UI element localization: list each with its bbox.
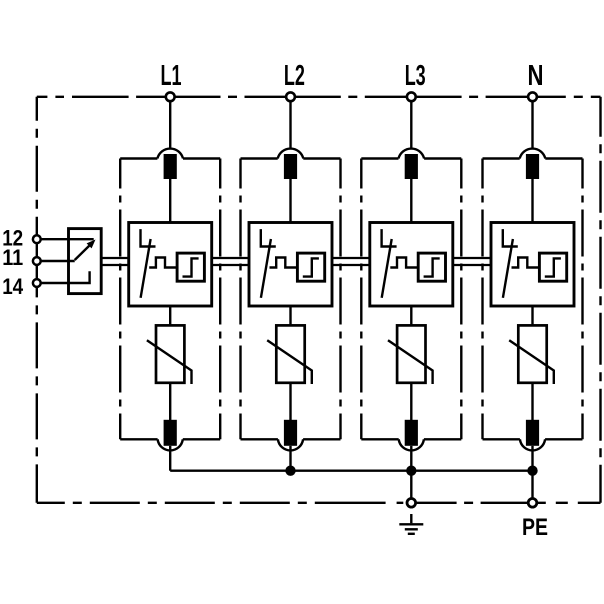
wire L2 terminal to top plug contact <box>289 101 291 149</box>
trip pulse waveform module 3 <box>390 258 418 268</box>
varistor MOV1 diagonal <box>147 340 192 384</box>
module 3 enclosure bottom edge <box>361 438 461 440</box>
terminal 11 circle <box>33 257 41 265</box>
wire disconnector box to varistor module 3 <box>410 306 412 325</box>
plug-in contact arc (top) module 3 <box>399 149 425 159</box>
wire L1 terminal to top plug contact <box>169 101 171 149</box>
module 2 enclosure left edge (dash-dot) <box>239 159 241 440</box>
wire bottom contact to PE bus module 1 <box>169 446 171 471</box>
terminal L3 circle <box>407 92 416 101</box>
wire disconnector box to varistor module 2 <box>289 306 291 325</box>
trip pulse waveform module 2 <box>270 258 298 268</box>
wire PE bus to earth terminal <box>410 471 412 499</box>
varistor MOV3 body <box>397 325 425 382</box>
step symbol module 4 <box>545 258 561 276</box>
junction dot at x=411.3 on PE bus <box>406 466 416 476</box>
wire varistor to bottom contact module 2 <box>289 383 291 420</box>
wire top contact to disconnector box module 2 <box>289 179 291 223</box>
svg-text:L1: L1 <box>161 60 182 92</box>
svg-text:L3: L3 <box>405 60 426 92</box>
terminal N circle <box>528 92 537 101</box>
module 3 enclosure top edge <box>361 157 461 159</box>
mechanical linkage double line segment 4 <box>453 258 491 265</box>
disconnector fixed contact stub module 1 <box>141 229 156 246</box>
module 3 enclosure left edge (dash-dot) <box>360 159 362 440</box>
varistor MOV3 diagonal <box>388 340 433 384</box>
wire varistor to bottom contact module 1 <box>169 383 171 420</box>
module 2 enclosure bottom edge <box>241 438 341 440</box>
plug-in contact arc (bottom) module 1 <box>158 439 183 450</box>
surge monitor box module 4 <box>539 253 566 281</box>
step symbol module 1 <box>183 258 199 276</box>
surge monitor box module 2 <box>297 253 324 281</box>
varistor MOV2 diagonal <box>267 340 312 384</box>
wire disconnector box to varistor module 4 <box>531 306 533 325</box>
wire varistor to bottom contact module 4 <box>531 383 533 420</box>
thermal disconnector + monitoring box module 3 <box>370 223 453 307</box>
svg-text:PE: PE <box>522 514 548 541</box>
wire top contact to disconnector box module 4 <box>531 179 533 223</box>
mechanical linkage double line segment 3 <box>332 258 370 265</box>
step symbol module 2 <box>303 258 319 276</box>
enclosure border left edge lower (terminal 14 to corner) <box>36 287 38 502</box>
remote signalling changeover contact box <box>69 229 102 294</box>
module 1 enclosure bottom edge <box>120 438 220 440</box>
thermal disconnector + monitoring box module 1 <box>129 223 212 307</box>
enclosure border top edge segment: L1 to L2 <box>176 96 286 98</box>
varistor MOV4 diagonal <box>509 340 554 384</box>
mechanical linkage double line segment 2 <box>212 258 249 265</box>
module 1 enclosure left edge (dash-dot) <box>119 159 121 440</box>
wire bottom contact to PE bus module 3 <box>410 446 412 471</box>
module 1 enclosure top edge <box>120 157 220 159</box>
enclosure border top edge segment: L2 to L3 <box>296 96 406 98</box>
contact blade (bottom, filled) module 2 <box>284 420 297 446</box>
disconnector fixed contact stub module 2 <box>261 229 276 246</box>
plug-in contact arc (bottom) module 3 <box>399 439 424 450</box>
wire PE bus to PE terminal <box>531 471 533 499</box>
disconnector blade module 3 <box>382 239 392 298</box>
svg-text:14: 14 <box>2 274 24 299</box>
wire bottom contact to PE bus module 4 <box>531 446 533 471</box>
terminal 12 circle <box>33 235 41 243</box>
enclosure border bottom edge segment: PE to bottom-right corner <box>538 502 601 504</box>
plug-in contact arc (top) module 1 <box>157 149 183 159</box>
wire L3 terminal to top plug contact <box>410 101 412 149</box>
thermal disconnector + monitoring box module 4 <box>491 223 574 307</box>
mechanical linkage double line segment 1 <box>101 258 129 265</box>
module 3 enclosure right edge (dash-dot) <box>460 159 462 440</box>
enclosure border top edge segment: L3 to N <box>417 96 528 98</box>
module 4 enclosure left edge (dash-dot) <box>481 159 483 440</box>
plug-in contact arc (bottom) module 2 <box>278 439 303 450</box>
terminal PE circle <box>528 499 537 508</box>
module 1 enclosure right edge (dash-dot) <box>219 159 221 440</box>
varistor MOV4 body <box>518 325 546 382</box>
varistor MOV1 body <box>156 325 184 382</box>
enclosure border top edge segment: corner to L1 <box>37 96 165 98</box>
earth terminal circle <box>407 499 416 508</box>
contact blade (bottom, filled) module 1 <box>164 420 177 446</box>
wire L4 terminal to top plug contact <box>531 101 533 149</box>
enclosure border bottom edge segment: corner to earth terminal <box>37 502 406 504</box>
wire bottom contact to PE bus module 2 <box>289 446 291 471</box>
enclosure border left edge upper (corner to terminal 12) <box>36 97 38 235</box>
PE bus horizontal wire <box>170 470 532 472</box>
terminal 14 circle <box>33 279 41 287</box>
ground symbol <box>410 514 412 523</box>
varistor MOV2 body <box>276 325 304 382</box>
contact blade (top, filled) module 3 <box>405 154 418 179</box>
wire terminal 14 with hooked fixed contact <box>41 271 89 283</box>
terminal L1 circle <box>166 92 175 101</box>
surge monitor box module 1 <box>177 253 204 281</box>
plug-in contact arc (bottom) module 4 <box>520 439 545 450</box>
module 4 enclosure right edge (dash-dot) <box>581 159 583 440</box>
changeover blade with arrow <box>75 244 91 260</box>
module 4 enclosure top edge <box>483 157 583 159</box>
disconnector fixed contact stub module 4 <box>503 229 518 246</box>
enclosure border top edge segment: N to top-right corner <box>538 96 601 98</box>
disconnector blade module 1 <box>141 239 151 298</box>
wire disconnector box to varistor module 1 <box>169 306 171 325</box>
contact blade (top, filled) module 2 <box>284 154 297 179</box>
plug-in contact arc (top) module 2 <box>278 149 304 159</box>
disconnector blade module 4 <box>503 239 513 298</box>
disconnector fixed contact stub module 3 <box>382 229 397 246</box>
enclosure border left edge between terminals 12-11-14 <box>36 239 38 283</box>
enclosure border right edge (dash-dot) <box>599 97 601 503</box>
trip pulse waveform module 4 <box>512 258 540 268</box>
step symbol module 3 <box>424 258 440 276</box>
contact blade (bottom, filled) module 3 <box>405 420 418 446</box>
wire terminal 12 with fixed contact <box>41 238 93 240</box>
plug-in contact arc (top) module 4 <box>520 149 546 159</box>
enclosure border bottom edge segment: earth to PE terminal <box>417 502 528 504</box>
contact blade (top, filled) module 1 <box>164 154 177 179</box>
junction dot at x=532.5 on PE bus <box>527 466 537 476</box>
junction dot at x=290.5 on PE bus <box>285 466 295 476</box>
surge monitor box module 3 <box>418 253 445 281</box>
module 2 enclosure right edge (dash-dot) <box>339 159 341 440</box>
disconnector blade module 2 <box>261 239 271 298</box>
wire top contact to disconnector box module 3 <box>410 179 412 223</box>
terminal L2 circle <box>286 92 295 101</box>
svg-text:N: N <box>528 60 544 92</box>
contact blade (top, filled) module 4 <box>526 154 539 179</box>
wire varistor to bottom contact module 3 <box>410 383 412 420</box>
svg-text:11: 11 <box>2 245 23 270</box>
contact blade (bottom, filled) module 4 <box>526 420 539 446</box>
svg-text:L2: L2 <box>284 60 305 92</box>
module 2 enclosure top edge <box>241 157 341 159</box>
module 4 enclosure bottom edge <box>483 438 583 440</box>
wire top contact to disconnector box module 1 <box>169 179 171 223</box>
trip pulse waveform module 1 <box>149 258 177 268</box>
thermal disconnector + monitoring box module 2 <box>249 223 332 307</box>
wire terminal 11 (common) <box>41 260 74 262</box>
